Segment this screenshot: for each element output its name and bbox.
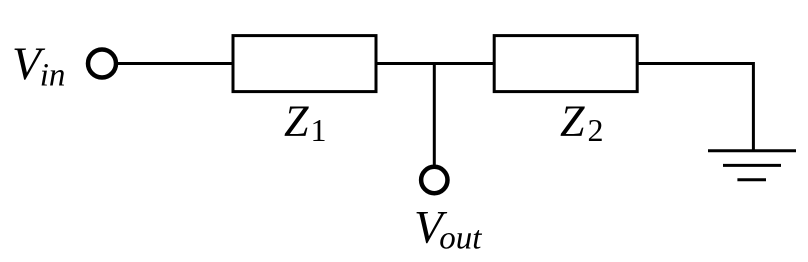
wire Z1 to Z2 [376,62,494,65]
terminal Vin (open circle) [88,50,116,78]
svg-text:Z1: Z1 [284,97,326,148]
svg-text:Vout: Vout [414,202,482,257]
wire corner down to ground [752,62,755,151]
node Vout label [414,202,482,257]
wire Vin terminal to Z1 [117,62,234,65]
ground [708,151,796,180]
svg-text:Vin: Vin [12,38,65,94]
label Z2 [560,97,603,148]
impedance Z1 (box) [233,36,376,92]
wire output tap (junction to Vout terminal) [433,62,436,166]
node Vin label [12,38,65,94]
wire Z2 to corner [637,62,753,65]
label Z1 [284,97,326,148]
terminal Vout (open circle) [421,167,447,193]
svg-text:Z2: Z2 [560,97,603,148]
impedance Z2 (box) [494,36,637,92]
